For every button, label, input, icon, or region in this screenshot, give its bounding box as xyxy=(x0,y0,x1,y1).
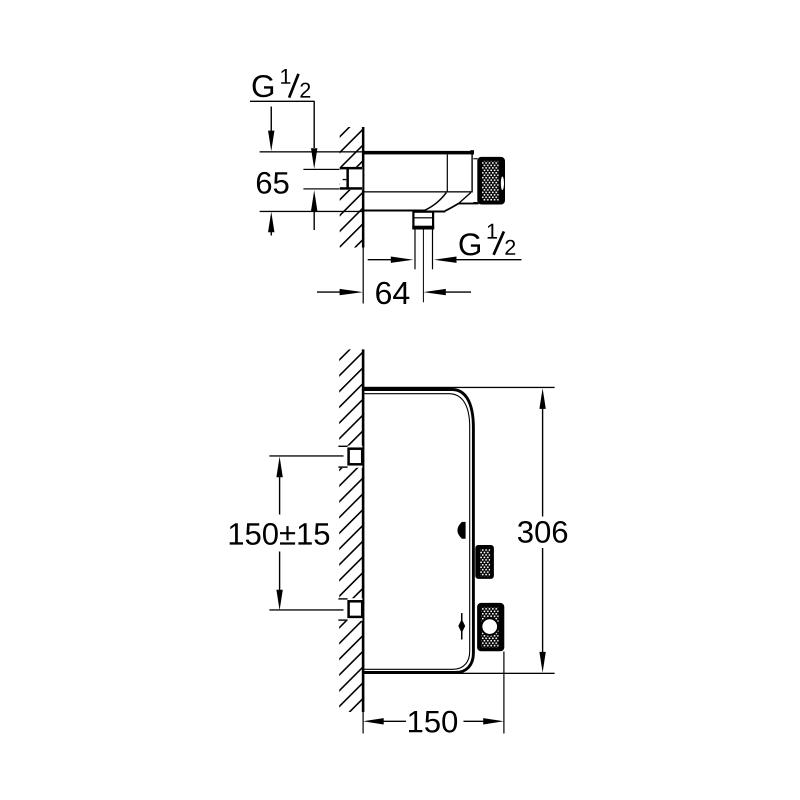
temperature tick xyxy=(461,613,463,639)
dim 150±15: upper extension xyxy=(269,455,343,456)
dim 150±15: lower arrow xyxy=(279,552,281,591)
upper bracket flange bottom xyxy=(338,466,347,467)
dim 306 text xyxy=(518,521,567,543)
dim 150±15 text xyxy=(230,523,330,545)
extension line body bottom xyxy=(260,211,363,212)
extension line body top xyxy=(260,151,363,152)
knob neck top xyxy=(473,158,477,159)
label G 1/2 (outlet) xyxy=(460,233,481,255)
under curve right xyxy=(445,203,459,211)
dim 65: lower arrow xyxy=(268,212,274,233)
middle knob (side view) xyxy=(475,545,494,579)
dim 150: left arrow xyxy=(363,718,384,724)
knurled knob (top view) xyxy=(477,157,505,205)
big knob circle xyxy=(482,619,497,634)
body bottom edge xyxy=(363,210,425,212)
dim 64: right part xyxy=(423,289,445,295)
body outline (side view) xyxy=(363,390,473,673)
inlet nipple left edge xyxy=(346,167,349,190)
body right edge xyxy=(471,154,472,192)
extension line nipple bottom xyxy=(303,188,339,189)
extension line nipple top xyxy=(303,169,339,170)
leader line under G 1/2 xyxy=(250,100,315,102)
big knob (side view) xyxy=(477,603,504,651)
lower bracket background blank xyxy=(338,598,362,621)
dim 64: left part xyxy=(317,291,340,293)
lower bracket flange top xyxy=(338,598,347,599)
outlet collar xyxy=(413,212,433,229)
big knob circle ring xyxy=(480,617,499,636)
inlet nipple bottom plate xyxy=(340,187,362,190)
button mark (side view) xyxy=(457,522,465,539)
lower bracket square xyxy=(349,601,363,617)
dim 64 text xyxy=(376,282,409,305)
upper bracket flange top xyxy=(338,446,347,447)
body seam xyxy=(447,154,448,192)
knob neck bottom xyxy=(473,202,477,203)
wall hatching (side view) xyxy=(330,329,370,731)
nipple background blank xyxy=(340,167,363,190)
dim 150: right arrow xyxy=(464,720,484,722)
dim 306: bottom extension xyxy=(455,673,555,674)
body inner line (side view) xyxy=(363,394,470,670)
upper bracket background blank xyxy=(338,446,362,468)
faucet body top edge (thick bar) xyxy=(363,151,475,155)
leader vertical + arrow down to nipple top xyxy=(313,101,315,148)
label G 1/2 (top) xyxy=(253,75,274,97)
dim 65 text xyxy=(257,172,289,194)
wall line (top view) xyxy=(362,127,365,248)
chamfer curve left xyxy=(425,193,447,211)
dim 150 text xyxy=(409,711,457,733)
dim 65: upper arrow xyxy=(270,107,272,132)
chamfer diagonal right xyxy=(459,193,471,204)
body waist line xyxy=(363,191,473,192)
dim G 1/2 (outlet): right tail xyxy=(434,257,457,263)
wall line (side view) xyxy=(362,349,365,712)
under flat right xyxy=(459,203,479,205)
outlet pipe edges xyxy=(414,228,415,269)
knob highlight crescent xyxy=(501,177,504,190)
lower bracket flange bottom xyxy=(338,619,347,620)
dim 150±15: lower extension xyxy=(269,609,343,610)
dim G 1/2 (outlet): left tail xyxy=(368,259,392,261)
upper bracket square xyxy=(349,449,363,465)
outlet pipe centerline xyxy=(423,228,424,302)
dim 306: top arrow xyxy=(539,388,545,409)
dim 150: right extension xyxy=(503,652,504,734)
dim 306: top extension xyxy=(364,387,555,388)
arrow up to nipple bottom xyxy=(311,190,317,211)
wall hatching (top view) xyxy=(330,107,370,273)
dim 306: bottom arrow xyxy=(542,548,544,652)
outlet boss bottom xyxy=(413,211,445,213)
dim 150±15: upper arrow xyxy=(276,457,282,478)
inlet nipple top plate xyxy=(340,167,362,170)
inlet center tick xyxy=(343,179,347,180)
